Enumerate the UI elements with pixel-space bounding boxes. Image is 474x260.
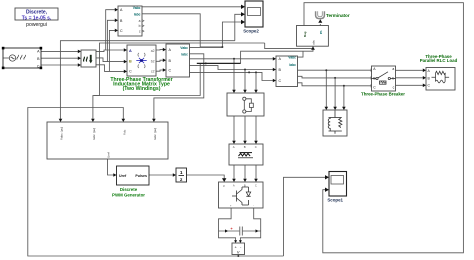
svg-text:C: C [279,79,282,83]
svg-text:-: - [253,205,254,208]
svg-text:Ts = 1e-05 s.: Ts = 1e-05 s. [22,15,52,21]
svg-text:Scope2: Scope2 [243,28,259,33]
svg-text:a: a [139,19,141,23]
svg-text:a: a [392,67,394,71]
svg-text:C: C [169,69,172,73]
svg-text:abc: abc [312,39,316,44]
svg-text:Vabc: Vabc [133,6,141,10]
svg-text:Iabc: Iabc [134,13,141,17]
svg-text:Uref: Uref [119,174,127,178]
svg-text:Parallel RLC Load: Parallel RLC Load [420,58,458,63]
svg-text:Vabc (pu): Vabc (pu) [60,127,64,140]
svg-text:Three-Phase Breaker: Three-Phase Breaker [361,91,405,96]
svg-text:Vdc: Vdc [122,129,126,135]
svg-text:c2: c2 [151,70,155,74]
svg-text:C: C [255,183,257,187]
svg-text:A: A [233,145,235,149]
svg-text:c: c [393,85,395,89]
svg-text:Ph: Ph [319,30,323,34]
svg-text:Discrete: Discrete [120,187,138,192]
svg-text:PWM Generator: PWM Generator [112,193,145,198]
svg-text:B: B [244,183,246,187]
svg-text:Vabc: Vabc [180,46,188,50]
svg-text:C: C [255,145,257,149]
svg-text:b: b [139,24,141,28]
svg-text:Terminator: Terminator [326,13,350,18]
svg-text:(Two Windings): (Two Windings) [123,86,161,92]
svg-text:Pulses: Pulses [135,174,147,178]
svg-text:Iabc: Iabc [181,52,188,56]
svg-text:A: A [233,183,235,187]
svg-text:A: A [129,49,132,53]
svg-text:C: C [129,70,132,74]
svg-text:Iabc (pu): Iabc (pu) [92,128,96,140]
svg-text:C: C [37,65,40,69]
svg-text:Scope1: Scope1 [327,198,343,203]
svg-text:b: b [392,77,394,81]
svg-text:Uref: Uref [107,152,111,158]
svg-text:powergui: powergui [26,22,47,28]
svg-text:Mag: Mag [303,31,307,37]
svg-text:a2: a2 [151,49,155,53]
svg-text:C: C [120,29,123,33]
svg-text:Vabc: Vabc [288,56,296,60]
svg-text:B: B [244,145,246,149]
svg-text:Iabc (pu): Iabc (pu) [153,128,157,140]
svg-text:Iabc: Iabc [289,63,296,67]
svg-text:B: B [129,60,132,64]
svg-text:b2: b2 [151,60,155,64]
